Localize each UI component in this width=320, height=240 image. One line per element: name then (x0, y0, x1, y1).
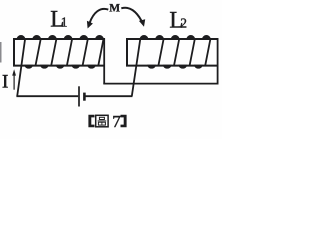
L1 left edge (13, 38, 15, 66)
L2 windings (158, 39, 210, 66)
battery BT1 long plate (positive) (78, 86, 80, 106)
L2 core outline: top line (126, 38, 218, 40)
wire: L1 left lead down to bottom rail (17, 40, 25, 97)
L2 left edge (126, 38, 128, 66)
caption bracket left 【 (88, 115, 94, 127)
current arrow I (points up) (12, 69, 16, 90)
svg-text:M: M (109, 3, 120, 15)
caption bracket right 】 (121, 115, 127, 127)
L1 windings (36, 39, 104, 66)
wire: mid rail connecting L1 right lead to L2 right lead (103, 83, 218, 85)
wire: L1 right lead down to mid rail (103, 38, 105, 83)
L2 top bumps (139, 35, 211, 40)
battery BT1 short plate (negative) (83, 93, 86, 101)
wire: L2 right lead down to mid rail (217, 38, 219, 83)
label L1 (50, 6, 64, 31)
coupling arrow right (M to L2) (121, 8, 145, 27)
L1 bottom bumps (24, 65, 96, 69)
svg-text:2: 2 (180, 16, 187, 31)
L1 core outline: bottom line (13, 65, 105, 67)
label L2 (169, 7, 183, 32)
current label I (2, 72, 8, 93)
wire: L2 left lead down to bottom rail (crosses mid rail) (132, 40, 140, 97)
inductor L2 (126, 35, 218, 69)
svg-text:1: 1 (61, 14, 68, 29)
wire: bottom rail right (battery negative to L2 lead) (84, 95, 132, 97)
L1 top bumps (16, 35, 104, 40)
wire: bottom rail left (lead to battery positive) (16, 95, 78, 97)
L1 core outline: top line (13, 38, 105, 40)
L2 core outline: bottom line (126, 65, 218, 67)
stray crop mark at left margin (0, 42, 2, 63)
caption numeral 7 (112, 112, 121, 131)
mutual inductance label M (109, 3, 120, 15)
svg-text:7: 7 (112, 112, 121, 131)
caption character 圖 (96, 115, 108, 127)
coupling arrow left (M to L1) (87, 9, 108, 29)
svg-text:I: I (2, 72, 8, 93)
L2 bottom bumps (147, 65, 203, 69)
inductor L1 (13, 35, 105, 69)
